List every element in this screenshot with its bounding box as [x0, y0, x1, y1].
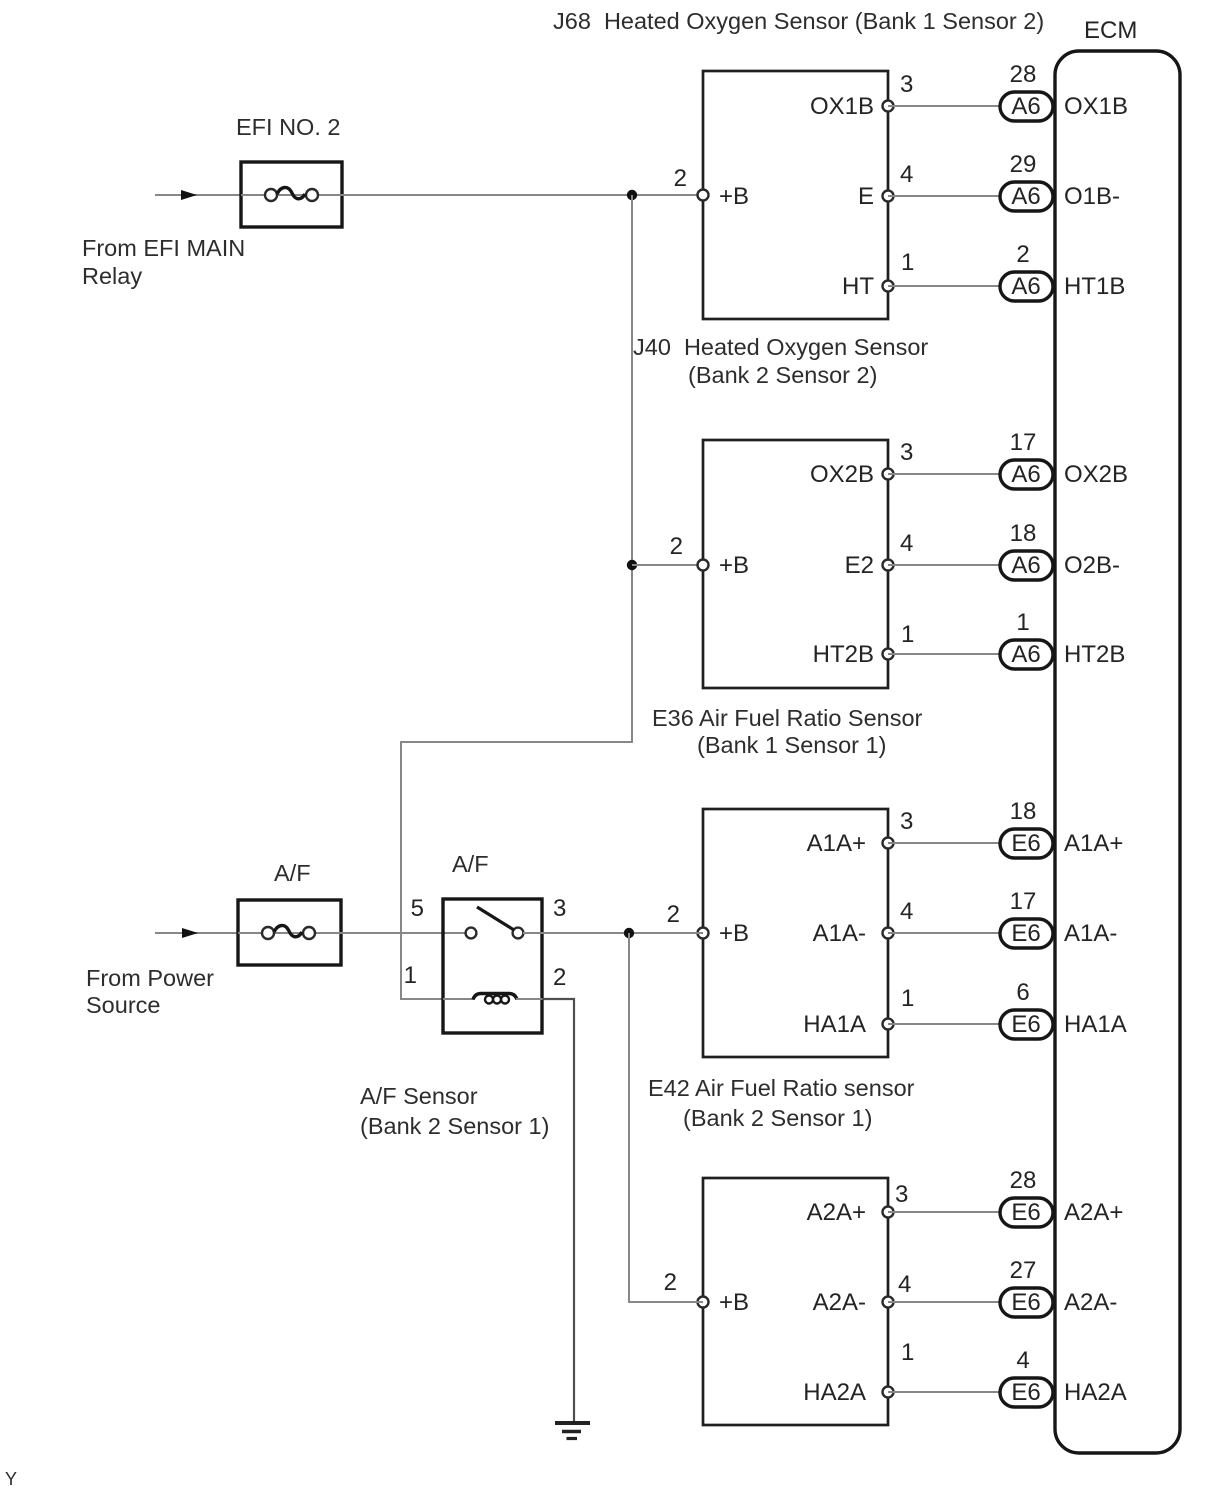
svg-text:2: 2 [670, 533, 683, 560]
terminal A6 pin 18 (O2B-) [1000, 520, 1053, 580]
title J40 Heated Oxygen Sensor (Bank 2 Sensor 2) [633, 334, 928, 388]
terminal E6 pin 4 (HA2A) [1000, 1347, 1053, 1407]
svg-text:HA2A: HA2A [1064, 1379, 1127, 1406]
junction node A/F heater feed [624, 928, 634, 938]
svg-text:3: 3 [900, 808, 913, 835]
svg-text:HT: HT [842, 273, 874, 300]
terminal E6 pin 6 (HA1A) [1000, 979, 1053, 1039]
fuse EFI NO. 2 [241, 162, 342, 227]
svg-text:HA2A: HA2A [803, 1379, 866, 1406]
svg-text:18: 18 [1010, 520, 1037, 547]
svg-text:A6: A6 [1011, 641, 1040, 668]
relay A/F (Bank 2 Sensor 1 heater relay) [404, 895, 567, 1033]
svg-text:A6: A6 [1011, 552, 1040, 579]
title E42 Air Fuel Ratio sensor (Bank 2 Sensor 1) [648, 1075, 915, 1131]
wire J40 OX2B to ECM [888, 473, 1000, 475]
svg-text:+B: +B [719, 1289, 749, 1316]
terminal A6 pin 2 (HT1B) [1000, 241, 1053, 301]
svg-text:A6: A6 [1011, 461, 1040, 488]
svg-text:28: 28 [1010, 61, 1037, 88]
svg-text:O1B-: O1B- [1064, 183, 1120, 210]
svg-text:1: 1 [404, 962, 417, 989]
junction node J40 +B tap [627, 560, 637, 570]
wire J40 HT2B to ECM [888, 653, 1000, 655]
svg-text:(Bank 2 Sensor 2): (Bank 2 Sensor 2) [688, 362, 877, 388]
svg-text:HA1A: HA1A [1064, 1011, 1127, 1038]
svg-text:OX2B: OX2B [1064, 461, 1128, 488]
connector J68 Heated Oxygen Sensor (Bank 1 Sensor 2) [674, 71, 915, 319]
caption From Power Source [86, 965, 214, 1018]
svg-text:E6: E6 [1011, 830, 1040, 857]
svg-text:A/F: A/F [274, 860, 311, 886]
svg-text:2: 2 [1016, 241, 1029, 268]
svg-text:1: 1 [901, 1339, 914, 1366]
svg-text:17: 17 [1010, 888, 1037, 915]
wire J68 HT to ECM [888, 285, 1000, 287]
svg-text:E6: E6 [1011, 920, 1040, 947]
svg-text:A1A+: A1A+ [1064, 830, 1123, 857]
terminal A6 pin 17 (OX2B) [1000, 429, 1053, 489]
svg-text:ECM: ECM [1084, 17, 1137, 44]
wire from Power Source into fuse A/F [155, 928, 238, 938]
svg-text:A/F Sensor: A/F Sensor [360, 1083, 478, 1109]
svg-text:A6: A6 [1011, 183, 1040, 210]
wire E42 HA2A to ECM [888, 1391, 1000, 1393]
svg-text:+B: +B [719, 920, 749, 947]
svg-text:(Bank 1 Sensor 1): (Bank 1 Sensor 1) [697, 732, 886, 758]
svg-text:(Bank 2 Sensor 1): (Bank 2 Sensor 1) [360, 1113, 549, 1139]
svg-text:+B: +B [719, 552, 749, 579]
svg-text:HT1B: HT1B [1064, 273, 1125, 300]
svg-text:1: 1 [1016, 609, 1029, 636]
svg-text:E2: E2 [845, 552, 874, 579]
wire E36 A1A+ to ECM [888, 842, 1000, 844]
wire E42 A2A+ to ECM [888, 1211, 1000, 1213]
wire relay contact 3 to E36 +B [523, 932, 703, 934]
wire J68 OX1B to ECM [888, 105, 1000, 107]
terminal E6 pin 17 (A1A-) [1000, 888, 1053, 948]
fuse A/F [238, 900, 341, 965]
svg-text:Y: Y [5, 1469, 17, 1489]
svg-text:E6: E6 [1011, 1199, 1040, 1226]
junction node EFI feed [627, 190, 637, 200]
svg-text:17: 17 [1010, 429, 1037, 456]
terminal E6 pin 18 (A1A+) [1000, 798, 1053, 858]
svg-text:OX1B: OX1B [1064, 93, 1128, 120]
caption From EFI MAIN Relay [82, 235, 245, 289]
svg-text:2: 2 [553, 964, 566, 991]
ECM connector body [1055, 51, 1180, 1453]
svg-text:1: 1 [901, 249, 914, 276]
wire J68 E to ECM [888, 195, 1000, 197]
wire tap to J40 +B [632, 564, 703, 566]
wire E36 HA1A to ECM [888, 1023, 1000, 1025]
svg-text:E6: E6 [1011, 1011, 1040, 1038]
svg-text:O2B-: O2B- [1064, 552, 1120, 579]
terminal E6 pin 28 (A2A+) [1000, 1167, 1053, 1227]
connector J40 Heated Oxygen Sensor (Bank 2 Sensor 2) [670, 439, 915, 688]
svg-text:Source: Source [86, 992, 160, 1018]
svg-text:E: E [858, 183, 874, 210]
svg-text:From EFI MAIN: From EFI MAIN [82, 235, 245, 261]
svg-text:2: 2 [674, 165, 687, 192]
svg-text:3: 3 [895, 1181, 908, 1208]
caption A/F Sensor (Bank 2 Sensor 1) [360, 1083, 549, 1139]
svg-text:4: 4 [900, 898, 913, 925]
svg-text:1: 1 [901, 985, 914, 1012]
terminal E6 pin 27 (A2A-) [1000, 1257, 1053, 1317]
svg-text:E36 Air Fuel Ratio Sensor: E36 Air Fuel Ratio Sensor [652, 705, 923, 731]
svg-text:2: 2 [664, 1269, 677, 1296]
ground [555, 1423, 590, 1439]
title E36 Air Fuel Ratio Sensor (Bank 1 Sensor 1) [652, 705, 923, 758]
svg-text:OX1B: OX1B [810, 93, 874, 120]
wire fuse to J68 +B [342, 194, 703, 196]
svg-text:OX2B: OX2B [810, 461, 874, 488]
svg-text:4: 4 [898, 1271, 911, 1298]
svg-text:EFI NO. 2: EFI NO. 2 [236, 114, 340, 140]
svg-text:18: 18 [1010, 798, 1037, 825]
wire fuse A/F to relay contact 5 [341, 932, 466, 934]
svg-text:A/F: A/F [452, 851, 489, 877]
svg-text:2: 2 [667, 901, 680, 928]
svg-text:Relay: Relay [82, 263, 142, 289]
svg-text:3: 3 [553, 895, 566, 922]
terminal A6 pin 29 (O1B-) [1000, 151, 1053, 211]
svg-text:A2A-: A2A- [813, 1289, 866, 1316]
svg-text:A1A-: A1A- [1064, 920, 1117, 947]
svg-text:6: 6 [1016, 979, 1029, 1006]
svg-text:28: 28 [1010, 1167, 1037, 1194]
svg-text:A2A-: A2A- [1064, 1289, 1117, 1316]
svg-text:27: 27 [1010, 1257, 1037, 1284]
svg-text:From Power: From Power [86, 965, 214, 991]
svg-text:4: 4 [900, 530, 913, 557]
svg-text:29: 29 [1010, 151, 1037, 178]
wire J40 E2 to ECM [888, 564, 1000, 566]
svg-text:E6: E6 [1011, 1379, 1040, 1406]
svg-text:A6: A6 [1011, 93, 1040, 120]
wire E36 A1A- to ECM [888, 932, 1000, 934]
svg-text:A2A+: A2A+ [807, 1199, 866, 1226]
svg-text:E42 Air Fuel Ratio sensor: E42 Air Fuel Ratio sensor [648, 1075, 915, 1101]
svg-text:4: 4 [1016, 1347, 1029, 1374]
connector E36 Air Fuel Ratio Sensor (Bank 1 Sensor 1) [667, 808, 915, 1057]
wire E42 A2A- to ECM [888, 1301, 1000, 1303]
terminal A6 pin 28 (OX1B) [1000, 61, 1053, 121]
svg-text:1: 1 [901, 621, 914, 648]
svg-text:J40 Heated Oxygen Sensor: J40 Heated Oxygen Sensor [633, 334, 928, 360]
svg-text:E6: E6 [1011, 1289, 1040, 1316]
svg-text:HA1A: HA1A [803, 1011, 866, 1038]
connector E42 Air Fuel Ratio sensor (Bank 2 Sensor 1) [664, 1178, 915, 1425]
svg-text:A2A+: A2A+ [1064, 1199, 1123, 1226]
svg-text:3: 3 [900, 71, 913, 98]
terminal A6 pin 1 (HT2B) [1000, 609, 1053, 669]
svg-text:(Bank 2 Sensor 1): (Bank 2 Sensor 1) [683, 1105, 872, 1131]
svg-text:5: 5 [411, 895, 424, 922]
svg-text:A1A+: A1A+ [807, 830, 866, 857]
svg-text:J68 Heated Oxygen Sensor (Ban: J68 Heated Oxygen Sensor (Bank 1 Sensor … [553, 8, 1044, 34]
svg-text:HT2B: HT2B [813, 641, 874, 668]
svg-text:+B: +B [719, 183, 749, 210]
wire trunk EFI feed down-left to relay coil pin 1 [401, 195, 632, 999]
svg-text:HT2B: HT2B [1064, 641, 1125, 668]
svg-text:3: 3 [900, 439, 913, 466]
svg-text:A1A-: A1A- [813, 920, 866, 947]
svg-text:A6: A6 [1011, 273, 1040, 300]
svg-text:4: 4 [900, 161, 913, 188]
wire from EFI MAIN Relay into fuse [155, 190, 241, 200]
wire relay coil pin 2 to ground [542, 999, 574, 1423]
wire trunk down to E42 +B [629, 933, 703, 1302]
